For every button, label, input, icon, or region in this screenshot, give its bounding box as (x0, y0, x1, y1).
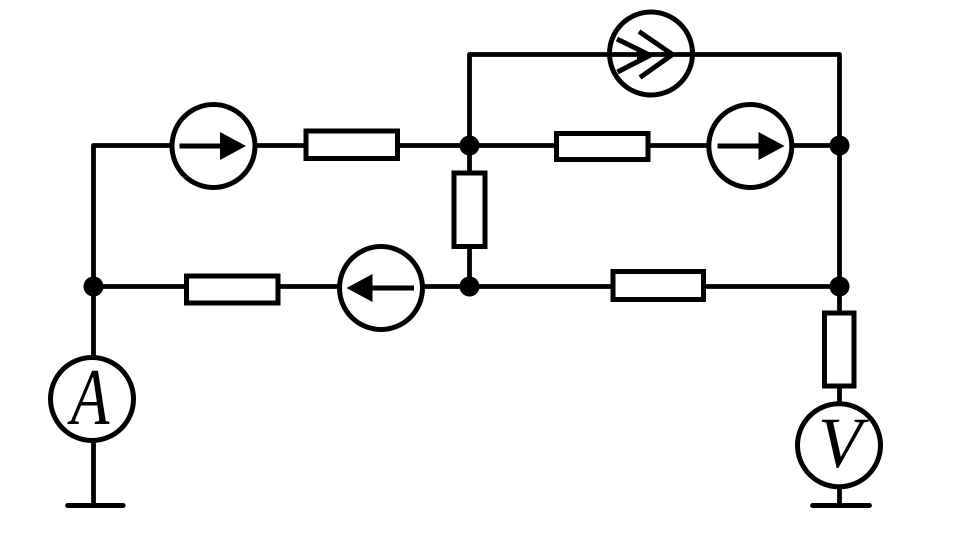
wire: right column row1 to row2 (837, 146, 842, 287)
ammeter A (circle) (51, 358, 134, 441)
node N1 (mid, row1) (460, 136, 480, 156)
wire: ammeter to ground (91, 399, 96, 503)
controlled current source I3 arrowhead (637, 47, 651, 62)
ground (right) (813, 503, 870, 508)
current source I4 arrow (points left) (347, 274, 415, 302)
wire: right node down through resistor to voltmeter (837, 287, 842, 446)
resistor R1 (306, 131, 398, 159)
voltmeter V (circle) (798, 404, 881, 487)
resistor R5 (middle vertical) (454, 173, 485, 247)
controlled current source I3 (circle, double arrow) (610, 12, 693, 95)
current source I2 arrow (718, 132, 785, 160)
controlled current source I3 through-wire (606, 52, 696, 57)
ground (left) (68, 503, 123, 508)
wire: left riser and row-1 bus (94, 146, 840, 287)
node N3 (left, row2) (84, 277, 104, 297)
wire: row-2 bus (94, 284, 840, 289)
svg-text:V: V (818, 403, 869, 483)
current source I1 arrow (180, 132, 247, 160)
current source I4 (circle) (340, 247, 423, 330)
resistor R2 (557, 134, 649, 160)
svg-text:A: A (67, 353, 110, 442)
controlled current source I3 chevron 2 (639, 32, 673, 78)
wire: voltmeter to ground (837, 445, 842, 503)
wire: middle column row1 to row2 (467, 146, 472, 287)
node N2 (right, row1) (830, 136, 850, 156)
resistor R3 (187, 276, 279, 303)
current source I2 (circle) (709, 105, 792, 188)
node N5 (right, row2) (830, 277, 850, 297)
resistor R6 (right vertical) (825, 313, 855, 386)
node N4 (mid, row2) (460, 277, 480, 297)
current source I1 (circle) (172, 105, 255, 188)
wire: top loop from node A up, across, down to node B (470, 55, 840, 146)
controlled current source I3 chevron 1 (617, 39, 650, 72)
wire: left node down to ammeter (91, 287, 96, 400)
resistor R4 (613, 272, 704, 300)
